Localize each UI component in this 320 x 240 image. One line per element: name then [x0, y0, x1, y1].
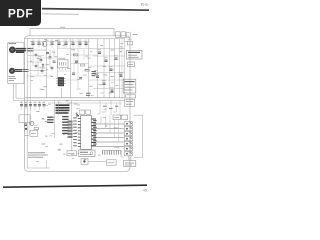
capacitor C103: [37, 39, 41, 48]
wire vertical V6: [123, 39, 125, 98]
wire LED drive 6: [96, 146, 124, 148]
wire right edge drop: [121, 39, 123, 98]
capacitor R201: [104, 58, 108, 62]
wire column E: [70, 39, 72, 98]
PDF badge: [0, 0, 41, 26]
wire horizontal H1: [89, 48, 126, 50]
wire to frame 2: [29, 70, 47, 72]
capacitor C115: [75, 61, 78, 62]
header rule: [42, 9, 149, 11]
LED D601: [124, 122, 132, 126]
microcontroller IC501 body: [81, 116, 92, 150]
IC101 pin leads: [56, 79, 65, 84]
wire LED drive 3: [96, 132, 124, 134]
wire LED column drop: [121, 150, 131, 160]
transistor Q301: [30, 122, 34, 126]
capacitor R205: [119, 73, 123, 77]
LED D607: [124, 152, 132, 156]
capacitor C124: [49, 54, 52, 60]
wire mid bus upper: [25, 97, 125, 99]
capacitor C109: [78, 39, 82, 48]
capacitor C125: [51, 65, 54, 71]
diode arrow D501: [76, 113, 79, 116]
capacitor C33: [29, 101, 32, 110]
regulator block box: [19, 115, 30, 123]
resistor R51: [68, 121, 72, 123]
capacitor C111: [84, 39, 88, 48]
connector CN301: [123, 79, 136, 93]
capacitor C116: [72, 73, 75, 74]
wire left rail B: [30, 50, 32, 120]
trimmer labels mid: [103, 106, 118, 108]
LED D603: [124, 132, 132, 136]
IC501 right pins: [91, 119, 96, 146]
connector CN202: [127, 62, 134, 67]
wire mid bus lower: [25, 99, 125, 101]
switch box S601: [113, 115, 121, 120]
wire LED drive 2: [96, 128, 124, 130]
remote sensor box: [124, 160, 136, 166]
schematic footnote: [28, 153, 48, 157]
wire horizontal H4: [93, 72, 125, 74]
switch box S602: [122, 115, 128, 120]
resistor R55: [68, 133, 72, 135]
resistor R52: [68, 124, 72, 126]
trimmer block CT202: [121, 32, 126, 38]
wire column C: [46, 39, 48, 98]
capacitor C203: [109, 67, 113, 71]
wire vertical V1: [97, 39, 99, 98]
varactor label block lower: [86, 93, 91, 95]
capacitor C36: [42, 101, 45, 110]
wire vertical V5: [119, 39, 121, 98]
svg-text:45: 45: [143, 189, 147, 193]
IC501 pin number column: [93, 121, 96, 144]
resistor ladder labels R311-R313: [47, 117, 53, 122]
wire horizontal H3: [89, 65, 126, 67]
connector CN501 pin comb: [103, 150, 121, 154]
wire tuner ground drop: [14, 84, 17, 100]
wire column D: [57, 39, 59, 77]
connector CN303: [125, 99, 135, 106]
wire regulator drop: [25, 122, 30, 133]
capacitor C501: [86, 110, 91, 114]
wire center rail C: [71, 100, 73, 151]
wire mid bus third: [48, 102, 122, 104]
IC301 part-number table: [56, 105, 70, 113]
wire column G: [88, 39, 90, 98]
resistor ladder labels R321-R327: [62, 117, 68, 134]
resistor R112: [85, 69, 89, 71]
trimmer block CT201: [116, 32, 121, 38]
capacitor C101: [31, 39, 35, 48]
schematic board frame: [25, 36, 131, 172]
wire secondary top bus: [30, 40, 90, 42]
transistor Q101: [42, 42, 47, 47]
wire vertical V3: [109, 39, 111, 98]
capacitor C201: [98, 50, 102, 54]
capacitor R101: [57, 39, 61, 48]
capacitor R103: [71, 39, 75, 48]
wire LED drive 1: [96, 123, 124, 125]
wire left rail: [26, 39, 28, 168]
wire from IC101 down: [61, 88, 63, 98]
capacitor C119: [79, 78, 82, 79]
tuner unit caption: [9, 77, 17, 81]
resistor R111: [81, 64, 85, 66]
IC501 left pin labels: [73, 118, 77, 146]
wire upper mesh 2: [58, 39, 98, 71]
capacitor C32: [24, 101, 27, 110]
wire upper-left mesh: [27, 50, 52, 76]
resistor R54: [68, 130, 72, 132]
LED D605: [124, 142, 132, 146]
capacitor C31: [20, 101, 23, 110]
footer rule: [3, 185, 147, 187]
capacitor R203: [96, 74, 100, 78]
resistor R56: [68, 136, 72, 138]
capacitor C209: [110, 88, 114, 92]
wire elbow to bus: [14, 98, 26, 100]
wire top bus mark: [60, 26, 65, 28]
small box F301: [30, 130, 38, 136]
corner note text: [133, 34, 138, 36]
LED panel bracket: [134, 115, 143, 157]
wire bottom-left drop: [27, 160, 50, 168]
capacitor C315: [24, 124, 27, 126]
capacitor C34: [33, 101, 36, 110]
wire horizontal H5: [89, 79, 126, 81]
capacitor C120: [35, 52, 38, 58]
component value labels scatter: [24, 39, 127, 161]
fuse box F501: [81, 159, 88, 165]
display unit box: [127, 50, 142, 59]
IC501 left pins: [78, 119, 81, 147]
capacitor C122: [35, 63, 38, 69]
coil L102: [23, 70, 29, 72]
capacitor C118: [53, 61, 56, 62]
FM antenna coil T102: [9, 68, 15, 74]
LED D606: [124, 147, 132, 151]
wire column F: [77, 39, 79, 88]
coil L103: [42, 63, 44, 69]
coil L101: [27, 49, 34, 51]
varactor label block: [92, 72, 97, 76]
wire top external bus: [30, 29, 114, 36]
power supply block: [79, 150, 95, 157]
trimmer block CT203: [126, 32, 130, 37]
wire horizontal H2: [93, 55, 125, 57]
capacitor C117: [46, 52, 49, 53]
wire LED matrix verticals: [101, 116, 119, 143]
capacitor C121: [40, 57, 43, 63]
svg-text:PDF: PDF: [8, 7, 33, 21]
wire horizontal H6: [93, 88, 125, 90]
wire LED drive 4: [96, 137, 124, 139]
header subtitle rule: [43, 13, 80, 16]
resistor R331: [34, 128, 39, 130]
wire main top bus: [25, 38, 125, 40]
connector CN201: [127, 40, 132, 45]
IF amplifier IC101: [58, 77, 64, 86]
svg-text:R-5: R-5: [141, 2, 148, 7]
resistor R53: [68, 127, 72, 129]
diode D301: [25, 128, 27, 130]
connector CN302: [126, 95, 136, 98]
capacitor C105: [50, 39, 54, 48]
capacitor C107: [64, 39, 68, 48]
wire right-mid vertical drops: [97, 100, 120, 115]
wire vertical V4: [114, 39, 116, 98]
tuner unit label: [9, 43, 17, 45]
AC inlet box: [107, 160, 117, 165]
capacitor C207: [102, 81, 106, 85]
wire bottom link: [76, 153, 106, 161]
LED D602: [124, 127, 132, 131]
wire vertical V2: [103, 39, 105, 98]
wire LED drive 5: [96, 141, 124, 143]
wire to frame: [34, 49, 47, 51]
wire center rail A: [53, 100, 55, 138]
power transformer box T501: [67, 151, 76, 156]
LED D604: [124, 137, 132, 141]
tuner unit enclosure: [8, 42, 25, 83]
wire center rail B: [57, 100, 59, 115]
ceramic filter block CF101: [58, 58, 69, 70]
antenna lead wire 2: [15, 70, 23, 72]
capacitor C205: [114, 56, 118, 60]
AM antenna coil T101: [9, 47, 16, 54]
wire upper mesh 3: [40, 49, 88, 81]
antenna lead wire: [16, 49, 26, 53]
crystal X501: [80, 110, 85, 114]
capacitor C35: [38, 101, 41, 110]
resistor R110: [74, 54, 78, 56]
capacitor C123: [41, 68, 44, 74]
